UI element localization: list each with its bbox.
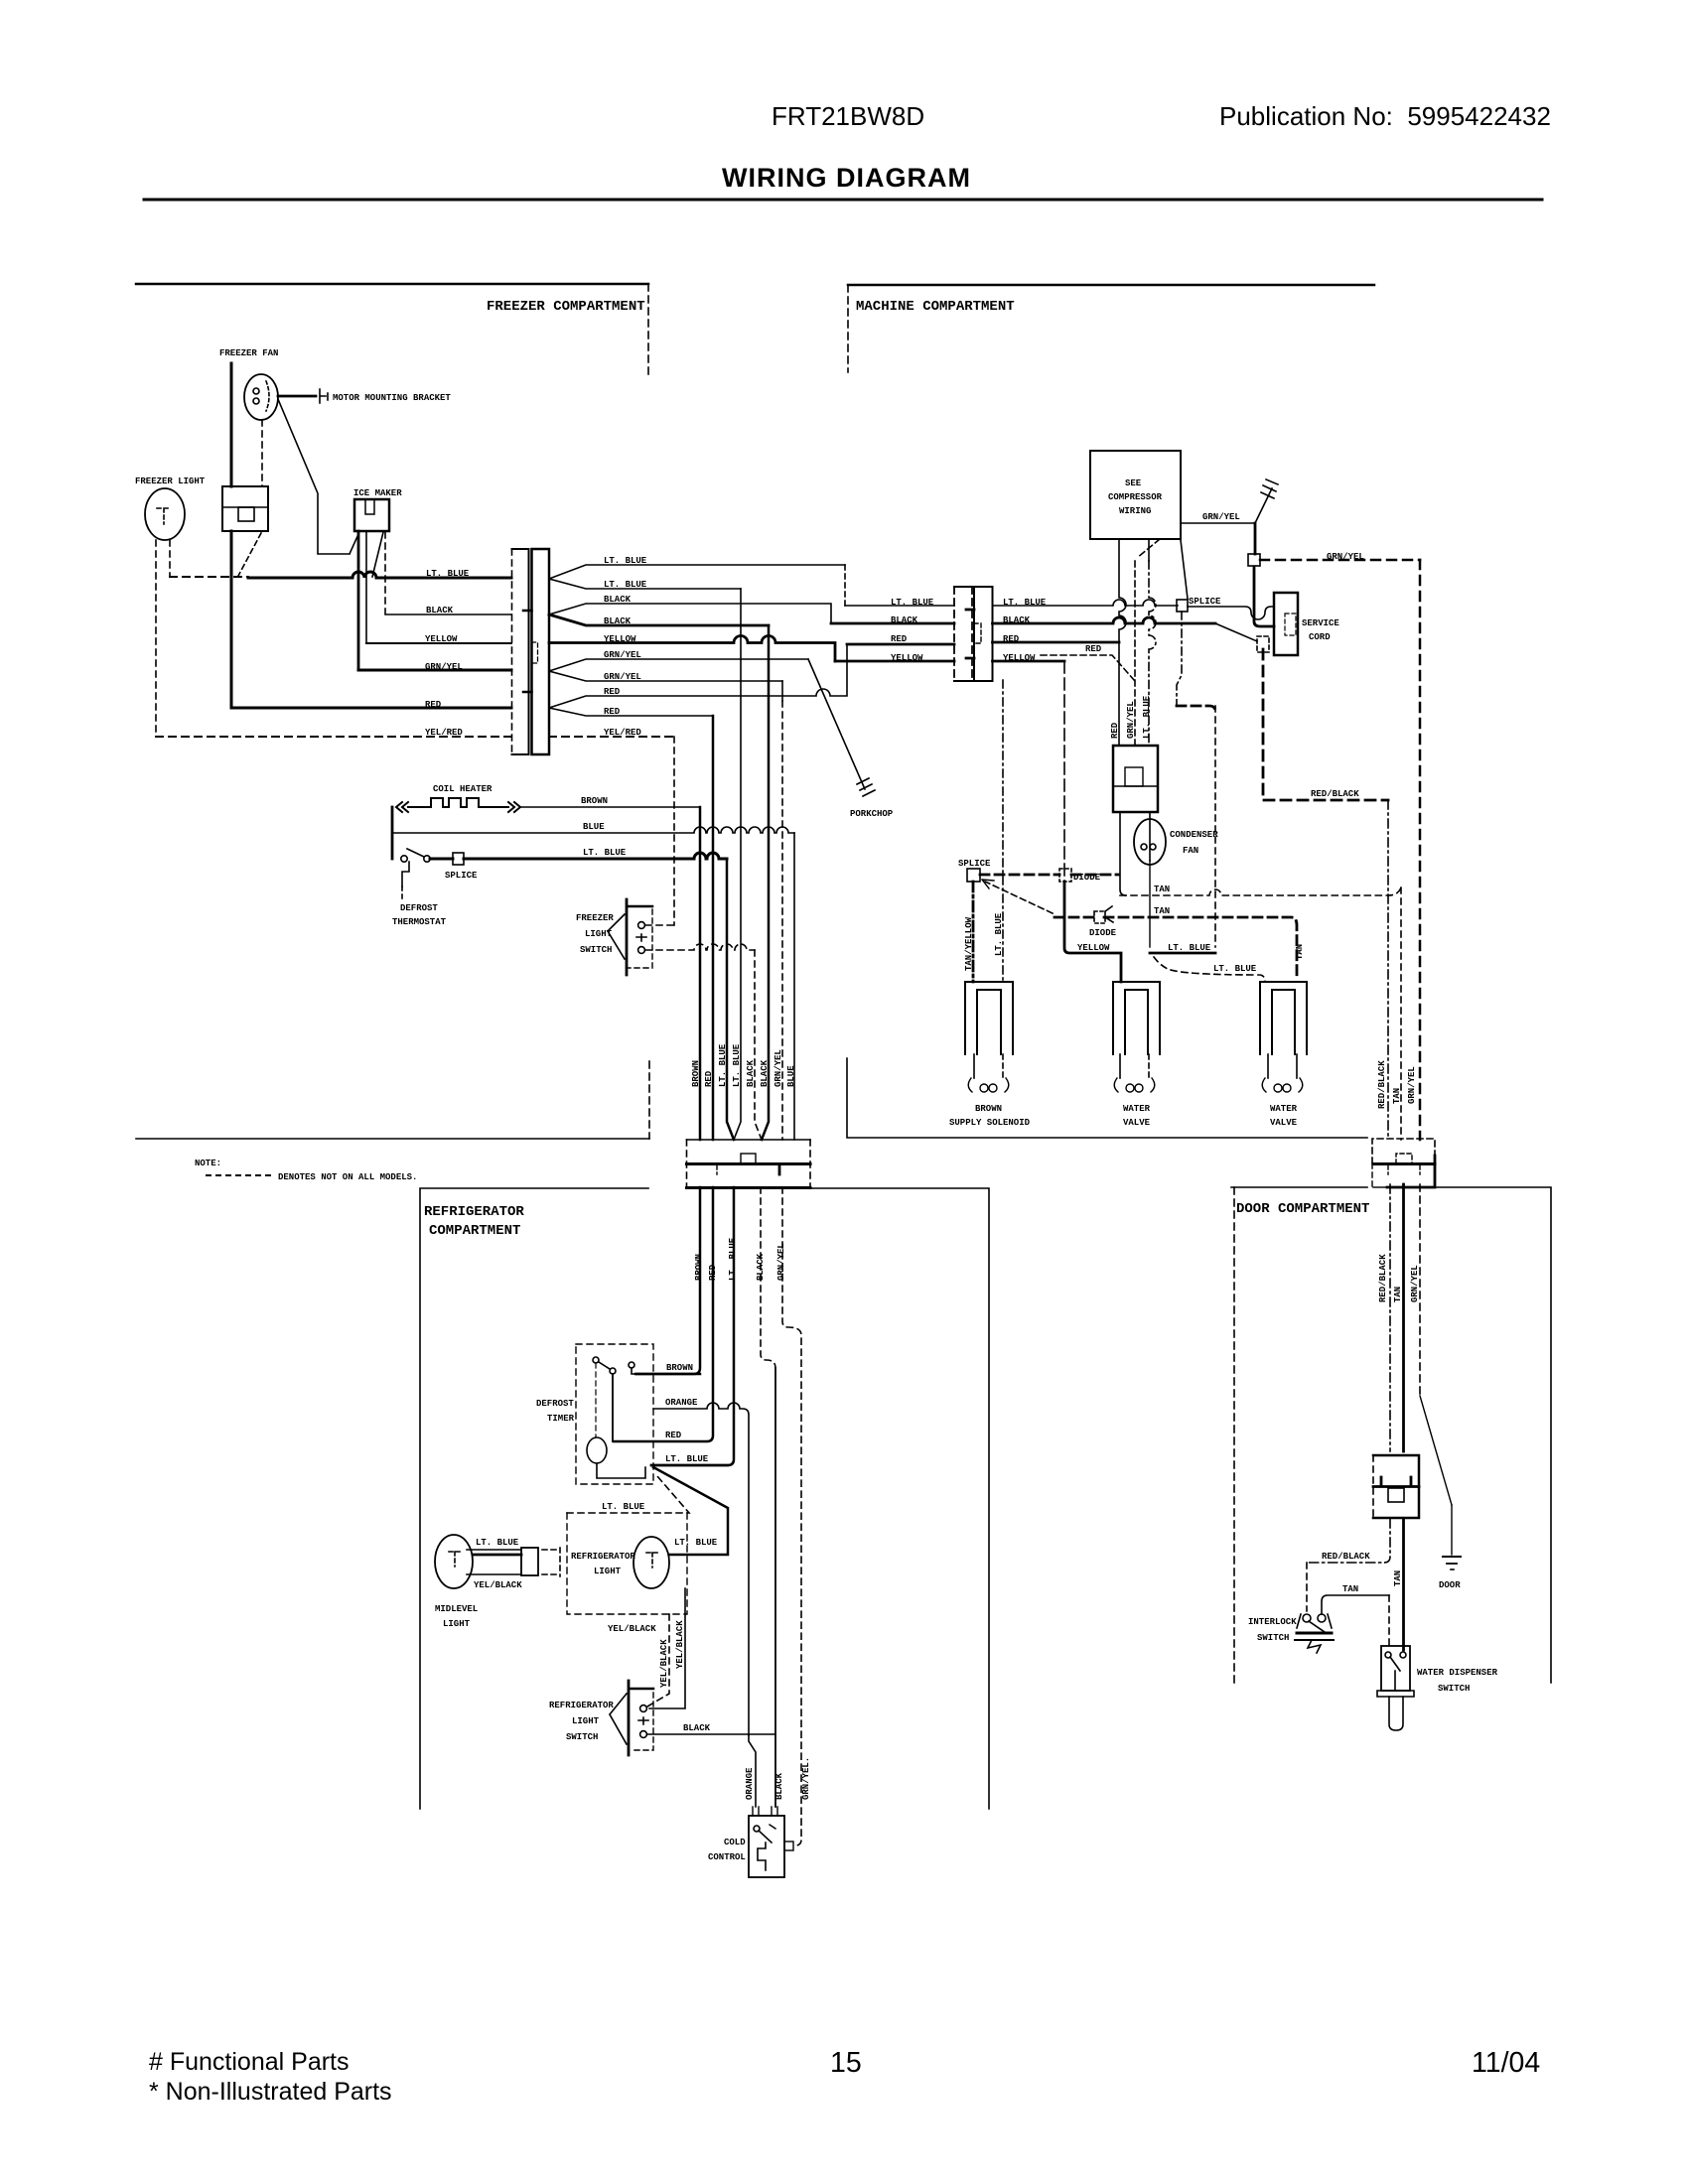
svg-text:YEL/RED: YEL/RED bbox=[425, 728, 463, 738]
svg-text:WIRING: WIRING bbox=[1119, 506, 1151, 516]
wire LT.BLUE right of J2 bbox=[993, 600, 1179, 606]
svg-text:WATER: WATER bbox=[1123, 1104, 1151, 1114]
wire LT.BLUE freezer row bbox=[248, 572, 511, 578]
svg-text:GRN/YEL: GRN/YEL bbox=[425, 662, 463, 672]
svg-text:BROWN: BROWN bbox=[666, 1363, 693, 1373]
wire BLACK pair fork right of J1 bbox=[549, 604, 831, 623]
water valve L2 label bbox=[1123, 1104, 1151, 1128]
water valve L2 coil bbox=[1114, 1078, 1155, 1092]
door connector J3 housing bbox=[1372, 1139, 1435, 1187]
svg-text:BLACK: BLACK bbox=[746, 1059, 756, 1087]
svg-text:RED: RED bbox=[708, 1264, 718, 1281]
svg-text:BLACK: BLACK bbox=[683, 1723, 711, 1733]
wire BLUE row bbox=[392, 827, 794, 833]
svg-text:LT. BLUE: LT. BLUE bbox=[665, 1454, 709, 1464]
wire LT.BLUE row dashed from freezer light bbox=[170, 576, 248, 578]
svg-text:SPLICE: SPLICE bbox=[1189, 597, 1221, 607]
wire RED/BLACK below J4 bbox=[1307, 1519, 1390, 1563]
wire TAN heavy dashed row bbox=[1055, 917, 1297, 978]
wire BROWN heater row bbox=[520, 806, 700, 808]
wire TAN interlock link bbox=[1322, 1595, 1389, 1614]
wire LT.BLUE dashed step down bbox=[844, 565, 846, 606]
svg-text:RED: RED bbox=[665, 1431, 682, 1440]
freezer fan supply wire bbox=[230, 363, 233, 486]
wire LT.BLUE midlevel row bbox=[473, 1554, 521, 1557]
wire GRN/YEL fork right of J1 bbox=[549, 659, 808, 681]
wire BLACK vertical from J1 bbox=[762, 625, 769, 1140]
svg-text:LT. BLUE: LT. BLUE bbox=[1213, 964, 1257, 974]
svg-text:FREEZER: FREEZER bbox=[576, 913, 614, 923]
svg-text:ORANGE: ORANGE bbox=[665, 1398, 698, 1408]
svg-text:RED: RED bbox=[1085, 644, 1102, 654]
supply solenoid L1 bbox=[965, 982, 1013, 1054]
wire BLUE vertical bbox=[793, 833, 795, 1140]
svg-text:WATER: WATER bbox=[1270, 1104, 1298, 1114]
svg-text:LT. BLUE: LT. BLUE bbox=[728, 1237, 738, 1281]
wire GRN/YEL splice to service cord bbox=[1254, 567, 1274, 626]
svg-text:RED/BLACK: RED/BLACK bbox=[1322, 1552, 1370, 1562]
svg-text:ORANGE: ORANGE bbox=[745, 1767, 755, 1800]
water dispenser switch S5 bbox=[1377, 1646, 1414, 1730]
svg-text:BLACK: BLACK bbox=[604, 616, 632, 626]
svg-text:GRN/YEL: GRN/YEL bbox=[604, 650, 641, 660]
water valve L3 bbox=[1260, 982, 1307, 1054]
wire RED fork right of J1 bbox=[549, 644, 847, 716]
interlock switch S4 bbox=[1295, 1614, 1334, 1653]
svg-text:YELLOW: YELLOW bbox=[1003, 653, 1036, 663]
svg-text:REFRIGERATOR: REFRIGERATOR bbox=[549, 1701, 614, 1710]
wire ORANGE jog bbox=[749, 1735, 756, 1807]
wire BLACK drop to switch bbox=[774, 1368, 776, 1807]
svg-text:COIL HEATER: COIL HEATER bbox=[433, 784, 492, 794]
midlevel light connector dashes bbox=[542, 1548, 560, 1576]
wire LT.BLUE heavy dashed top link bbox=[1177, 706, 1215, 712]
svg-text:RED: RED bbox=[704, 1070, 714, 1087]
wire LT.BLUE pair fork right of J1 bbox=[549, 565, 845, 589]
svg-text:LT. BLUE: LT. BLUE bbox=[476, 1538, 519, 1548]
labels rotated below J5 bbox=[694, 1237, 786, 1281]
svg-text:YEL/BLACK: YEL/BLACK bbox=[608, 1624, 656, 1634]
svg-text:RED: RED bbox=[891, 634, 908, 644]
door ground symbol bbox=[1443, 1557, 1461, 1570]
wire fan connector to RED node bbox=[230, 531, 233, 708]
svg-text:MIDLEVEL: MIDLEVEL bbox=[435, 1604, 478, 1614]
svg-text:RED: RED bbox=[425, 700, 442, 710]
svg-text:BLACK: BLACK bbox=[756, 1253, 766, 1281]
wire LT.BLUE vertical from J1 bbox=[734, 589, 741, 1140]
svg-text:GRN/YEL: GRN/YEL bbox=[1410, 1265, 1420, 1302]
wire GRN/YEL service top bbox=[1181, 522, 1255, 524]
compressor GRN/YEL dashed lead bbox=[1135, 539, 1160, 746]
svg-text:TAN: TAN bbox=[1295, 944, 1305, 960]
wire light switch BLACK dashed feed bbox=[645, 944, 755, 950]
svg-text:TAN: TAN bbox=[1393, 1570, 1403, 1586]
svg-text:WATER DISPENSER: WATER DISPENSER bbox=[1417, 1668, 1498, 1678]
svg-text:BLACK: BLACK bbox=[760, 1059, 770, 1087]
water valve L3 label bbox=[1270, 1104, 1298, 1128]
wire YEL/RED freezer row dashed bbox=[156, 736, 511, 738]
svg-text:BLACK: BLACK bbox=[891, 615, 918, 625]
refrigerator light housing dashed box bbox=[567, 1513, 687, 1614]
door compartment border dashed left side bbox=[1233, 1187, 1235, 1683]
svg-text:LT. BLUE: LT. BLUE bbox=[1168, 943, 1211, 953]
ice maker pin dashed to BLACK bbox=[384, 532, 386, 614]
compressor lead LT.BLUE bbox=[1148, 539, 1150, 561]
wire BLACK lower branch bbox=[549, 614, 769, 625]
wire ORANGE timer row bbox=[653, 1403, 749, 1735]
svg-text:YELLOW: YELLOW bbox=[604, 634, 636, 644]
wire GRN/YEL dashed below J5 bbox=[782, 1187, 801, 1845]
svg-text:* Non-Illustrated Parts: * Non-Illustrated Parts bbox=[149, 2078, 392, 2106]
svg-text:TAN/YELLOW: TAN/YELLOW bbox=[964, 916, 974, 971]
svg-text:COMPRESSOR: COMPRESSOR bbox=[1108, 492, 1163, 502]
labels rotated cold control bbox=[745, 1757, 811, 1800]
wire LT.BLUE dashed riser bbox=[1214, 706, 1216, 947]
svg-text:FREEZER COMPARTMENT: FREEZER COMPARTMENT bbox=[487, 299, 645, 315]
water valve L3 leads bbox=[1267, 1054, 1269, 1078]
svg-text:BROWN: BROWN bbox=[975, 1104, 1002, 1114]
freezer light dashed lead to YEL/RED bbox=[155, 540, 157, 737]
labels right of J2 bbox=[1003, 598, 1047, 663]
service cord dashed square bbox=[1257, 636, 1269, 652]
svg-text:RED/BLACK: RED/BLACK bbox=[1377, 1060, 1387, 1109]
wire TAN below J3 bbox=[1402, 1184, 1405, 1451]
title rule bbox=[144, 199, 1542, 202]
labels rotated below J3 bbox=[1378, 1254, 1420, 1302]
splice S4 bbox=[1248, 554, 1260, 566]
note dash sample bbox=[207, 1174, 272, 1176]
svg-text:LIGHT: LIGHT bbox=[594, 1567, 622, 1576]
svg-text:GRN/YEL.: GRN/YEL. bbox=[801, 1757, 811, 1800]
labels rotated above door connector bbox=[1377, 1060, 1417, 1109]
labels right of J1 bbox=[604, 556, 647, 738]
interlock switch label bbox=[1248, 1617, 1297, 1643]
wire LT.BLUE dashed row bbox=[567, 1476, 689, 1513]
svg-text:PORKCHOP: PORKCHOP bbox=[850, 809, 894, 819]
wire YEL/BLACK dashed drop bbox=[647, 1614, 669, 1706]
diode D2 bbox=[1094, 906, 1113, 923]
svg-text:SPLICE: SPLICE bbox=[445, 871, 478, 881]
svg-text:YEL/RED: YEL/RED bbox=[604, 728, 641, 738]
svg-text:LIGHT: LIGHT bbox=[585, 929, 613, 939]
svg-text:MACHINE COMPARTMENT: MACHINE COMPARTMENT bbox=[856, 299, 1015, 315]
splice diagonal dashed arrow bbox=[982, 880, 1053, 913]
svg-text:LT. BLUE: LT. BLUE bbox=[718, 1043, 728, 1087]
wire RED/BLACK dash-dot to door connector bbox=[1387, 800, 1389, 1140]
wire RED below J5 bbox=[614, 1187, 713, 1441]
wire RED freezer row bbox=[231, 707, 511, 710]
svg-text:VALVE: VALVE bbox=[1270, 1118, 1298, 1128]
svg-text:FAN: FAN bbox=[1183, 846, 1198, 856]
svg-text:15: 15 bbox=[830, 2047, 862, 2079]
wire YELLOW valve feed bbox=[1063, 661, 1065, 882]
wire YELLOW freezer row bbox=[366, 642, 511, 644]
refrigerator light switch pointer bbox=[610, 1694, 627, 1744]
wire LT.BLUE dashed bridge to valve3 bbox=[1154, 957, 1265, 982]
freezer connector J1 housing bbox=[512, 549, 550, 754]
cold control tab bbox=[784, 1842, 793, 1850]
wire GRN/YEL below J3 bbox=[1419, 1184, 1421, 1396]
door connector J4 bbox=[1373, 1455, 1419, 1518]
svg-text:FREEZER LIGHT: FREEZER LIGHT bbox=[135, 477, 206, 486]
svg-text:GRN/YEL: GRN/YEL bbox=[1202, 512, 1240, 522]
condenser fan motor M2 bbox=[1134, 819, 1166, 865]
svg-text:ICE MAKER: ICE MAKER bbox=[353, 488, 402, 498]
diode D1 bbox=[1059, 869, 1071, 882]
midlevel light bulb DS2 bbox=[435, 1535, 538, 1588]
supply solenoid label bbox=[949, 1104, 1031, 1128]
svg-text:GRN/YEL: GRN/YEL bbox=[776, 1243, 786, 1281]
svg-text:WIRING DIAGRAM: WIRING DIAGRAM bbox=[722, 163, 971, 193]
svg-text:DOOR: DOOR bbox=[1439, 1580, 1461, 1590]
wire TAN/YELLOW heavy dashed bbox=[972, 882, 975, 982]
svg-text:CONTROL: CONTROL bbox=[708, 1852, 746, 1862]
compressor lead RED bbox=[1119, 539, 1126, 746]
door compartment border left bbox=[1231, 1186, 1367, 1188]
freezer fan connector P1 bbox=[222, 486, 268, 531]
water valve L3 coil bbox=[1262, 1078, 1303, 1092]
wire LT.BLUE diagonal to light bbox=[653, 1467, 728, 1555]
coil heater element bbox=[396, 798, 520, 812]
svg-text:LIGHT: LIGHT bbox=[443, 1619, 471, 1629]
svg-text:BLACK: BLACK bbox=[1003, 615, 1031, 625]
svg-text:GRN/YEL: GRN/YEL bbox=[1407, 1066, 1417, 1104]
svg-text:SPLICE: SPLICE bbox=[958, 859, 991, 869]
freezer light switch label bbox=[576, 913, 614, 955]
defrost thermostat bracket bbox=[402, 862, 409, 887]
wire light switch to YEL/RED dashed bbox=[645, 924, 674, 926]
svg-text:BLACK: BLACK bbox=[426, 606, 454, 615]
svg-text:CORD: CORD bbox=[1309, 632, 1331, 642]
wire TAN thin dashed row bbox=[1120, 887, 1401, 895]
wire GRN/YEL dashed to door bbox=[1260, 559, 1420, 562]
wire BLACK to machine connector bbox=[831, 622, 954, 625]
wire YEL/RED vertical dashed bbox=[673, 737, 675, 925]
wire BLACK freezer row bbox=[385, 614, 511, 615]
labels left of machine connector bbox=[891, 598, 934, 663]
labels YEL/BLACK rotated bbox=[659, 1620, 685, 1688]
svg-text:DEFROST: DEFROST bbox=[536, 1399, 574, 1409]
svg-text:GRN/YEL: GRN/YEL bbox=[1327, 552, 1364, 562]
water dispenser switch label bbox=[1417, 1668, 1498, 1694]
fridge connector J5 housing bbox=[687, 1140, 811, 1188]
wire fan connector dashed pin bbox=[238, 533, 261, 576]
wire RED dashed jumper bbox=[1041, 655, 1135, 681]
svg-text:GRN/YEL: GRN/YEL bbox=[774, 1049, 783, 1087]
svg-text:LT. BLUE: LT. BLUE bbox=[602, 1502, 645, 1512]
svg-text:LT. BLUE: LT. BLUE bbox=[994, 912, 1004, 956]
svg-text:LT. BLUE: LT. BLUE bbox=[426, 569, 470, 579]
freezer row labels bbox=[425, 569, 470, 738]
wire RED/BLACK dashed drop to interlock bbox=[1306, 1563, 1308, 1611]
wire RED vertical bbox=[712, 716, 715, 1140]
svg-text:RED/BLACK: RED/BLACK bbox=[1311, 789, 1359, 799]
svg-text:SWITCH: SWITCH bbox=[1257, 1633, 1289, 1643]
service cord label bbox=[1302, 618, 1339, 642]
defrost timer contacts bbox=[593, 1357, 636, 1374]
defrost timer box dashed bbox=[576, 1344, 653, 1484]
wire compressor box to splice bbox=[1181, 540, 1188, 599]
svg-text:LT. BLUE: LT. BLUE bbox=[891, 598, 934, 608]
svg-text:RED: RED bbox=[604, 687, 621, 697]
svg-text:COLD: COLD bbox=[724, 1838, 746, 1847]
freezer light bulb DS1 bbox=[145, 488, 185, 540]
wire GRN/YEL dashed door drop bbox=[1419, 560, 1422, 1140]
svg-text:LT. BLUE: LT. BLUE bbox=[583, 848, 627, 858]
compressor wiring box text bbox=[1108, 478, 1163, 516]
wire YELLOW right of J1 bbox=[549, 636, 835, 661]
wire BROWN below J5 bbox=[635, 1187, 700, 1374]
svg-text:TAN: TAN bbox=[1393, 1287, 1403, 1302]
freezer compartment top border bbox=[136, 283, 648, 286]
wire LT.BLUE dash-dot valve1 bbox=[1002, 680, 1004, 982]
freezer light switch S3 bbox=[627, 899, 652, 975]
defrost thermostat dashed lead bbox=[401, 887, 403, 898]
wire LT.BLUE timer row bbox=[651, 1464, 728, 1467]
wire RED to machine connector bbox=[847, 643, 954, 646]
defrost thermostat label bbox=[392, 903, 447, 927]
svg-text:FREEZER FAN: FREEZER FAN bbox=[219, 348, 278, 358]
svg-text:LIGHT: LIGHT bbox=[572, 1716, 600, 1726]
bundle labels rotated bbox=[691, 1043, 796, 1087]
refrigerator compartment border bbox=[420, 1188, 989, 1809]
wire LT.BLUE valve feed bbox=[1149, 861, 1151, 947]
wire YELLOW right of J2 bbox=[993, 660, 1065, 663]
freezer fan motor lead dashed bbox=[261, 420, 263, 486]
svg-text:SWITCH: SWITCH bbox=[566, 1732, 598, 1742]
svg-text:REFRIGERATOR: REFRIGERATOR bbox=[571, 1552, 635, 1562]
svg-text:CONDENSER: CONDENSER bbox=[1170, 830, 1218, 840]
wire GRN/YEL freezer row bbox=[358, 669, 511, 672]
svg-text:BROWN: BROWN bbox=[694, 1254, 704, 1281]
refrigerator compartment label bbox=[424, 1204, 524, 1239]
midlevel light labels bbox=[435, 1538, 522, 1629]
wire YEL/BLACK solid drop bbox=[649, 1588, 685, 1708]
refrigerator light label bbox=[571, 1538, 718, 1576]
svg-text:LT. BLUE: LT. BLUE bbox=[674, 1538, 718, 1548]
svg-text:DOOR COMPARTMENT: DOOR COMPARTMENT bbox=[1236, 1201, 1369, 1217]
wire RED/BLACK heavy dashed drop bbox=[1263, 649, 1388, 800]
ice maker connector bbox=[354, 499, 389, 531]
wire BLACK right of J2 bbox=[993, 617, 1216, 623]
svg-text:BLACK: BLACK bbox=[774, 1772, 784, 1800]
svg-text:TAN: TAN bbox=[1342, 1584, 1358, 1594]
svg-text:LT. BLUE: LT. BLUE bbox=[1142, 695, 1152, 739]
svg-text:YEL/BLACK: YEL/BLACK bbox=[474, 1580, 522, 1590]
svg-text:YELLOW: YELLOW bbox=[1077, 943, 1110, 953]
ice maker pin wire to GRN/YEL bbox=[357, 531, 360, 670]
door compartment border right bbox=[1436, 1187, 1551, 1683]
svg-text:BLUE: BLUE bbox=[786, 1065, 796, 1087]
svg-text:THERMOSTAT: THERMOSTAT bbox=[392, 917, 447, 927]
svg-text:GRN/YEL: GRN/YEL bbox=[1126, 701, 1136, 739]
refrigerator light switch S6 bbox=[629, 1681, 653, 1755]
wire RED/BLACK below J3 bbox=[1389, 1184, 1391, 1451]
wire LT.BLUE dash-dot from splice bbox=[1177, 612, 1182, 706]
ice maker pin wire to YELLOW bbox=[365, 531, 367, 643]
wire BROWN vertical bbox=[699, 807, 702, 1140]
splice S5 bbox=[1177, 600, 1188, 612]
svg-text:TAN: TAN bbox=[1154, 906, 1170, 916]
svg-text:YELLOW: YELLOW bbox=[425, 634, 458, 644]
freezer light switch pointer bbox=[608, 914, 625, 959]
svg-text:TIMER: TIMER bbox=[547, 1414, 575, 1424]
wire YELLOW to machine connector bbox=[835, 660, 954, 663]
wire GRN/YEL vertical bbox=[781, 681, 783, 701]
svg-text:BROWN: BROWN bbox=[581, 796, 608, 806]
freezer fan ground path wire bbox=[278, 399, 358, 554]
supply solenoid leads bbox=[973, 1054, 975, 1078]
freezer compartment bottom border dashed riser bbox=[648, 1061, 650, 1139]
svg-text:FRT21BW8D: FRT21BW8D bbox=[772, 101, 924, 131]
compressor wiring box bbox=[1090, 451, 1181, 539]
svg-text:LT. BLUE: LT. BLUE bbox=[604, 580, 647, 590]
machine compartment bottom border bbox=[847, 1058, 1367, 1138]
svg-text:MOTOR MOUNTING BRACKET: MOTOR MOUNTING BRACKET bbox=[333, 393, 451, 403]
wire TAN below J4 bbox=[1402, 1519, 1405, 1650]
wire LT.BLUE below J5 bbox=[651, 1187, 734, 1465]
wire LT.BLUE to machine connector bbox=[845, 605, 954, 607]
wire TAN dashed drop to dispenser bbox=[1388, 1595, 1390, 1646]
wire RED right of J2 bbox=[993, 641, 1120, 644]
svg-text:TAN: TAN bbox=[1392, 1088, 1402, 1104]
heater left bracket wire bbox=[391, 807, 394, 859]
svg-text:SEE: SEE bbox=[1125, 478, 1142, 488]
refrigerator light bulb DS3 bbox=[633, 1537, 669, 1588]
machine connector J2 housing bbox=[954, 587, 993, 681]
svg-text:RED: RED bbox=[1110, 722, 1120, 739]
water valve L2 bbox=[1113, 982, 1160, 1054]
freezer compartment bottom border bbox=[136, 1138, 649, 1140]
defrost timer label bbox=[536, 1399, 575, 1424]
svg-text:DIODE: DIODE bbox=[1089, 928, 1117, 938]
svg-text:LT. BLUE: LT. BLUE bbox=[1003, 598, 1047, 608]
compressor relay overload bbox=[1113, 746, 1158, 812]
svg-text:Publication No: 5995422432: Publication No: 5995422432 bbox=[1219, 101, 1551, 131]
svg-text:11/04: 11/04 bbox=[1472, 2047, 1540, 2079]
refrigerator light switch label bbox=[549, 1701, 614, 1742]
svg-text:YEL/BLACK: YEL/BLACK bbox=[659, 1639, 669, 1688]
relay legs bbox=[1120, 812, 1150, 895]
svg-text:BROWN: BROWN bbox=[691, 1060, 701, 1087]
freezer light dashed lead to LT.BLUE bbox=[169, 540, 171, 577]
svg-text:RED: RED bbox=[604, 707, 621, 717]
machine compartment top border dashed drop bbox=[847, 285, 849, 372]
note text bbox=[195, 1159, 417, 1182]
wire BLACK diagonal to service square bbox=[1215, 623, 1257, 641]
freezer fan motor M1 bbox=[244, 374, 278, 420]
wire BLACK dashed vertical from light switch bbox=[755, 950, 762, 1140]
freezer compartment top border dashed drop bbox=[647, 284, 649, 377]
splice S2 bbox=[453, 853, 464, 865]
footer text bbox=[149, 2047, 1540, 2106]
chassis ground sawtooth bbox=[1255, 479, 1278, 523]
svg-text:BLUE: BLUE bbox=[583, 822, 605, 832]
svg-text:DEFROST: DEFROST bbox=[400, 903, 438, 913]
svg-text:SWITCH: SWITCH bbox=[580, 945, 612, 955]
wire GRN/YEL to splice bbox=[1254, 523, 1257, 554]
svg-text:VALVE: VALVE bbox=[1123, 1118, 1151, 1128]
svg-text:GRN/YEL: GRN/YEL bbox=[604, 672, 641, 682]
svg-text:RED/BLACK: RED/BLACK bbox=[1378, 1254, 1388, 1302]
wire GRN/YEL to door ground bbox=[1451, 1505, 1453, 1555]
svg-text:DENOTES NOT ON ALL MODELS.: DENOTES NOT ON ALL MODELS. bbox=[278, 1172, 417, 1182]
svg-text:# Functional Parts: # Functional Parts bbox=[149, 2048, 350, 2076]
supply solenoid coil bbox=[968, 1078, 1009, 1092]
porkchop ground diagonal bbox=[808, 659, 875, 796]
splice S6 bbox=[967, 869, 980, 882]
defrost thermostat S1 bbox=[401, 849, 430, 862]
